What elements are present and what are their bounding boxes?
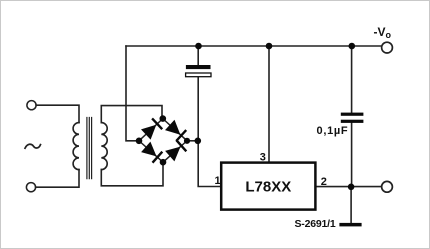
junction dot top rail at C1 bbox=[195, 43, 202, 50]
regulator U1 box bbox=[221, 163, 315, 210]
wire: pin 2 to output terminal bbox=[315, 186, 381, 188]
output terminal (-Vo) bbox=[382, 42, 393, 53]
diode D4 (bridge bottom-right) bbox=[165, 147, 180, 162]
bridge diamond edges bbox=[139, 119, 187, 163]
wire: junction down to regulator pin 1 bbox=[198, 46, 221, 187]
filter capacitor C1 plate - (hollow) bbox=[186, 73, 211, 77]
capacitor C2 0.1uF plates bbox=[341, 113, 364, 116]
junction dot top rail at pin3 bbox=[266, 43, 273, 50]
output terminal (bottom) bbox=[382, 181, 393, 192]
ground symbol bbox=[339, 223, 361, 227]
wire: bottom input terminal to transformer primary bbox=[36, 170, 79, 188]
input terminal (AC top) bbox=[27, 101, 36, 110]
wire: secondary top to bridge top vertex bbox=[101, 106, 162, 123]
diode D1 (bridge top-left) bbox=[141, 125, 156, 140]
wire: top rail (-Vo rail) bbox=[126, 45, 382, 47]
junction dot bridge right vertex bbox=[184, 138, 190, 144]
wire: pin 3 from top rail to regulator bbox=[268, 46, 270, 163]
wire: 0.1uF branch from top rail bbox=[351, 46, 353, 187]
diode D2 (bridge top-right) bbox=[165, 120, 180, 135]
transformer T1 primary winding bbox=[73, 123, 79, 170]
wire: down to ground bbox=[350, 187, 352, 223]
junction dot bridge bottom vertex bbox=[160, 159, 167, 166]
svg-text:S-2691/1: S-2691/1 bbox=[295, 218, 336, 230]
diode D3 (bridge bottom-left) bbox=[141, 142, 156, 157]
svg-text:2: 2 bbox=[321, 176, 327, 188]
junction dot top rail at C2 branch bbox=[349, 43, 356, 50]
wire: secondary bottom to bridge bottom vertex bbox=[101, 162, 163, 186]
wire: top rail corner down to bridge left vertex bbox=[126, 46, 139, 141]
wire: bridge right vertex stub to junction bbox=[187, 140, 198, 142]
junction dot bridge top vertex bbox=[160, 115, 167, 122]
junction dot bridge right output bbox=[195, 138, 202, 145]
transformer T1 secondary winding bbox=[101, 123, 107, 170]
filter capacitor C1 plate + bbox=[186, 65, 211, 69]
AC source ~ symbol bbox=[25, 144, 41, 148]
junction dot bridge left vertex bbox=[136, 138, 143, 145]
svg-text:0,1µF: 0,1µF bbox=[317, 125, 349, 137]
svg-text:3: 3 bbox=[260, 152, 266, 164]
wire: top input terminal to transformer primary bbox=[36, 105, 79, 122]
input terminal (AC bottom) bbox=[26, 183, 35, 192]
transformer T1 core bbox=[87, 118, 92, 179]
svg-text:L78XX: L78XX bbox=[245, 179, 291, 196]
junction dot output node bbox=[348, 184, 355, 191]
svg-text:1: 1 bbox=[215, 175, 221, 187]
